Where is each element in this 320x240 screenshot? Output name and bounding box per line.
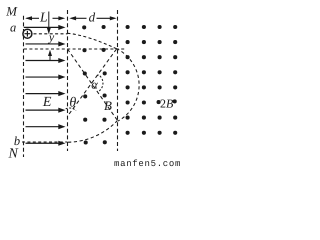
svg-text:N: N bbox=[8, 147, 19, 162]
svg-text:M: M bbox=[5, 5, 18, 19]
svg-text:L: L bbox=[39, 9, 48, 24]
svg-text:E: E bbox=[42, 95, 52, 110]
svg-text:d: d bbox=[89, 9, 96, 24]
svg-text:manfen5.com: manfen5.com bbox=[114, 159, 181, 169]
svg-text:B: B bbox=[104, 98, 112, 113]
svg-text:a: a bbox=[10, 20, 16, 34]
svg-text:θ: θ bbox=[69, 95, 76, 110]
svg-text:y: y bbox=[48, 30, 55, 44]
svg-text:α: α bbox=[91, 78, 98, 92]
svg-text:2B: 2B bbox=[160, 96, 174, 110]
